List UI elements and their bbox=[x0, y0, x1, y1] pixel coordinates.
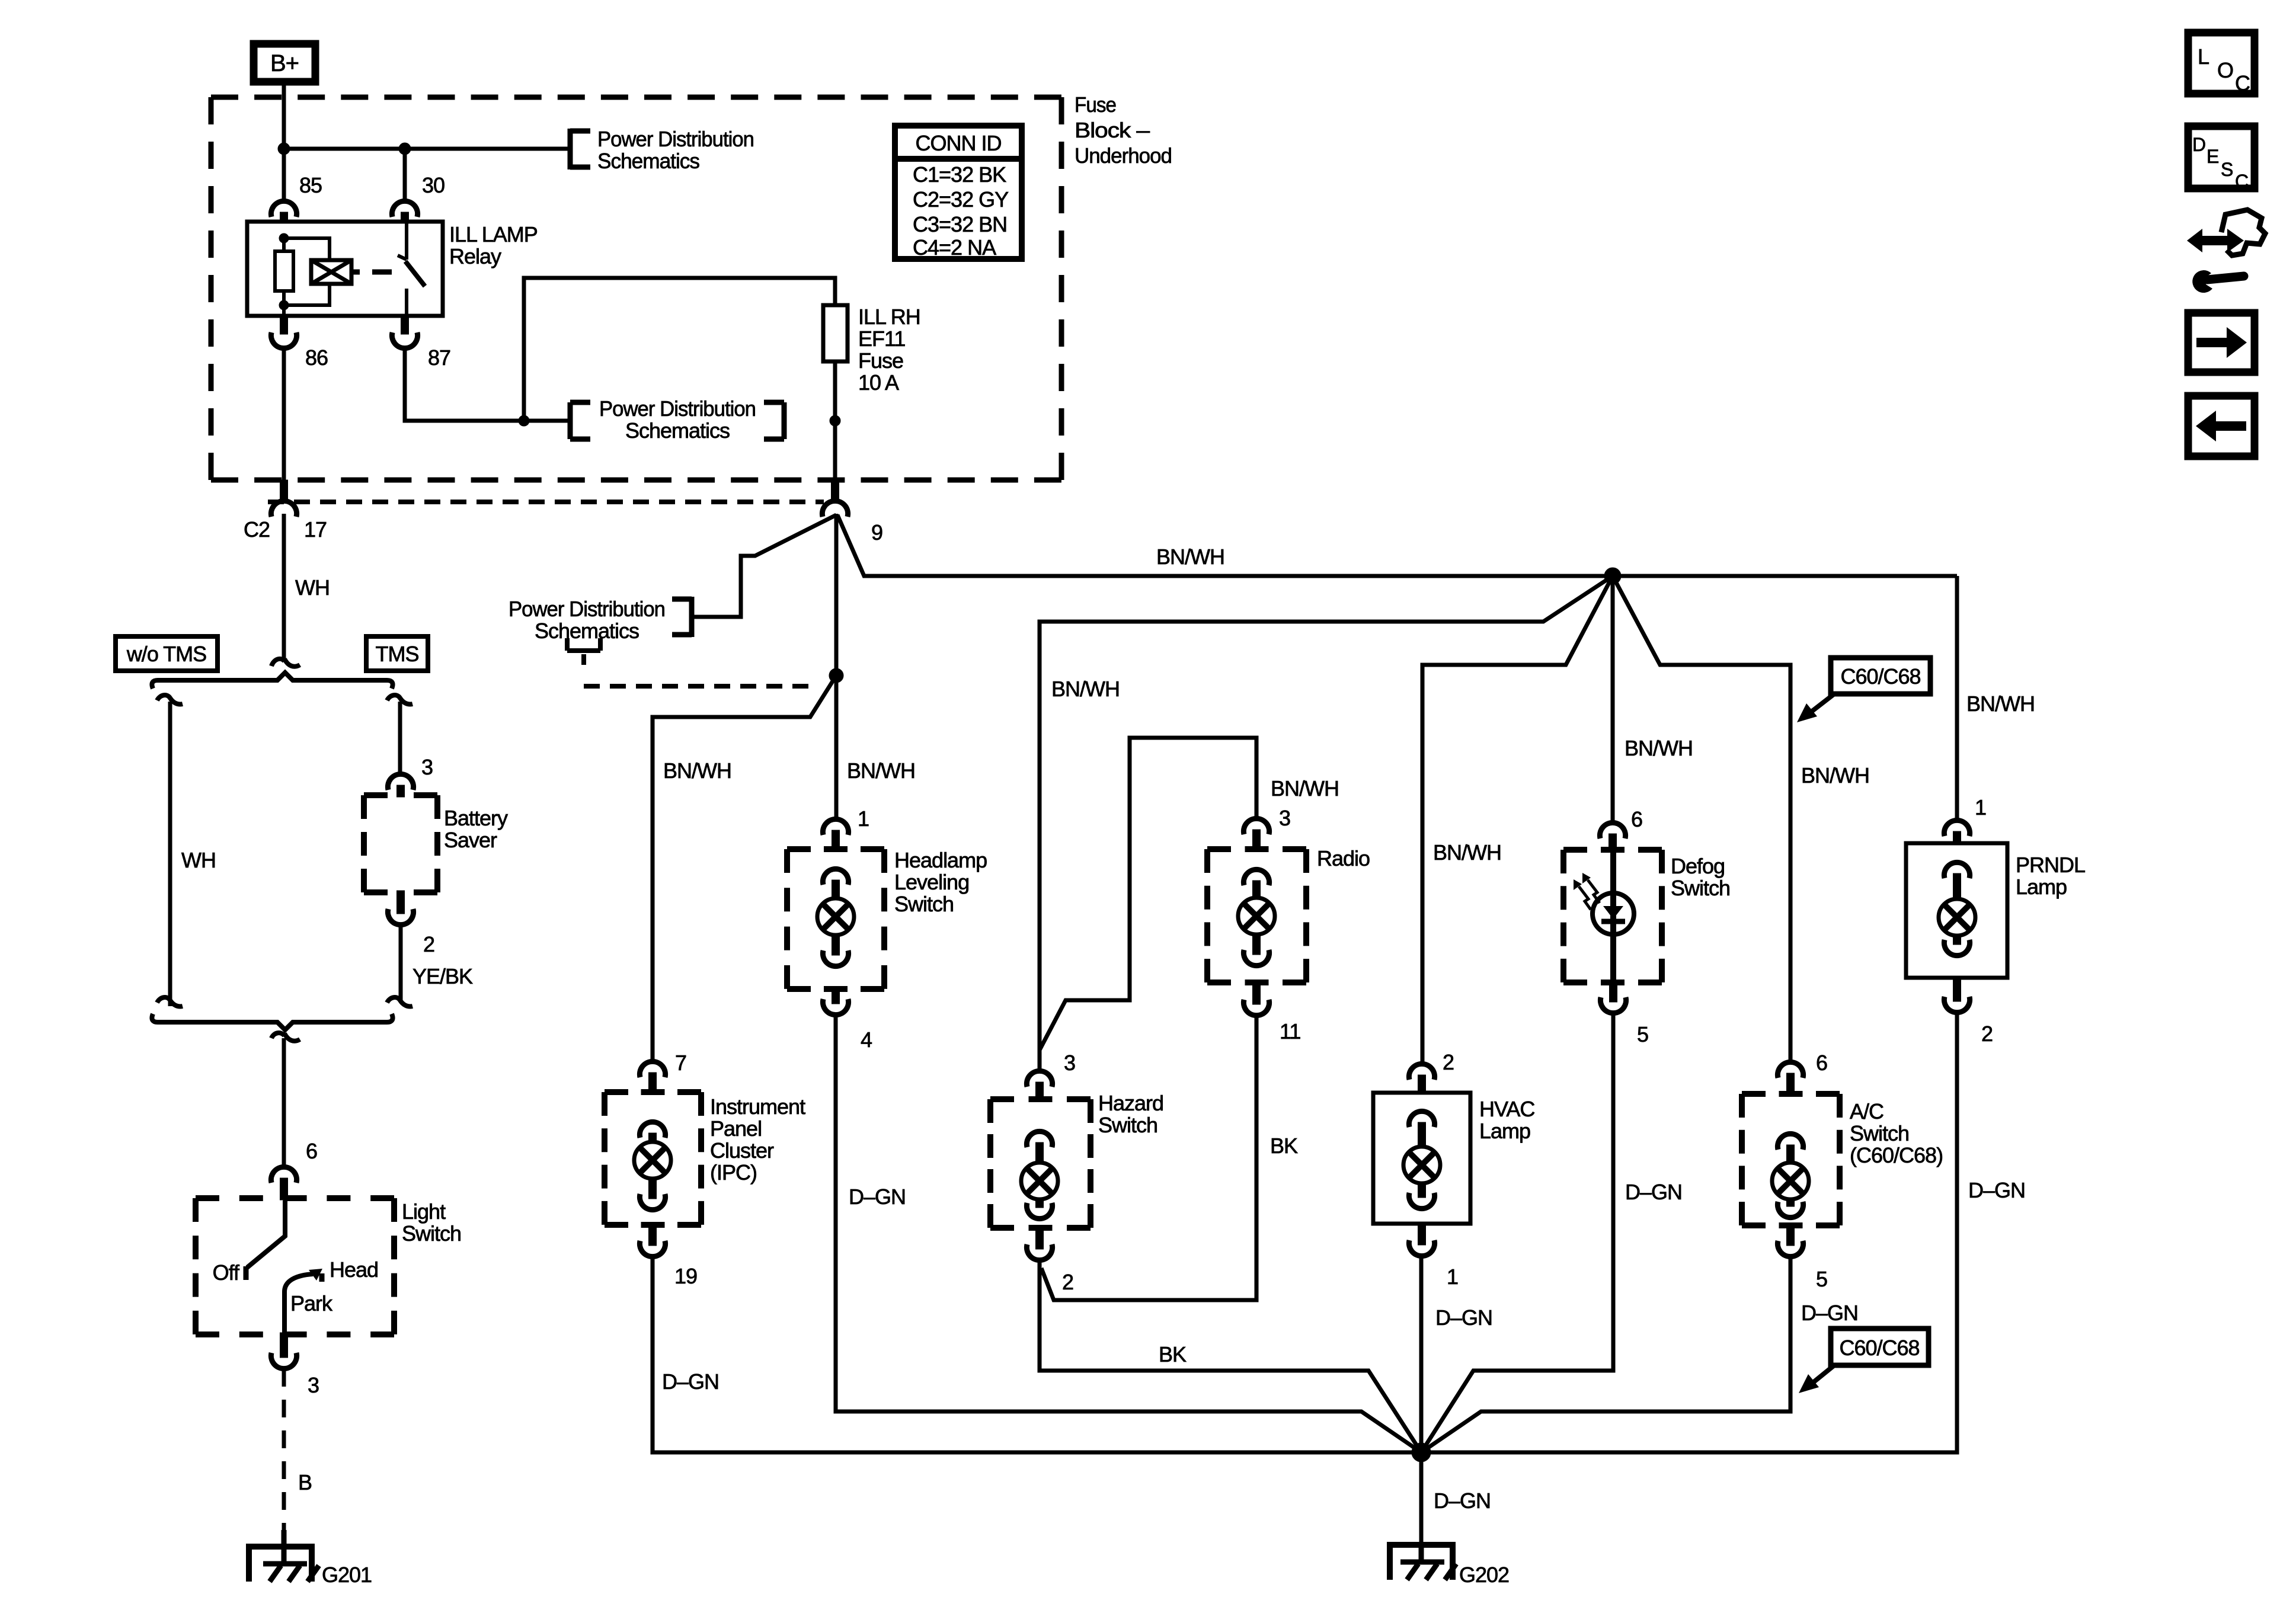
wire BN/WH to A/C switch bbox=[1613, 576, 1790, 1062]
svg-text:Schematics: Schematics bbox=[625, 418, 730, 443]
junction BN/WH main bbox=[1604, 568, 1621, 584]
svg-text:30: 30 bbox=[422, 173, 445, 197]
connector internal A/C bottom bbox=[1777, 1202, 1803, 1218]
svg-text:5: 5 bbox=[1816, 1267, 1827, 1291]
svg-text:E: E bbox=[2207, 146, 2218, 167]
connector defog pin 5 bbox=[1600, 997, 1626, 1013]
w/o TMS option tag bbox=[116, 636, 218, 671]
label A/C Switch (C60/C68) bbox=[1850, 1099, 1943, 1167]
connector PRNDL pin 2 bbox=[1944, 997, 1969, 1013]
connector IPC pin 7 bbox=[639, 1061, 665, 1077]
wire D-GN PRNDL return bbox=[1421, 1013, 1957, 1452]
svg-text:C: C bbox=[2235, 171, 2248, 192]
svg-text:2: 2 bbox=[1443, 1050, 1454, 1074]
svg-text:S: S bbox=[2221, 159, 2233, 180]
svg-text:WH: WH bbox=[181, 848, 216, 872]
svg-text:D–GN: D–GN bbox=[1435, 1305, 1492, 1330]
wire fuse to pin 9 bbox=[833, 361, 837, 481]
svg-text:TMS: TMS bbox=[376, 642, 419, 666]
connector A/C pin 6 bbox=[1777, 1062, 1803, 1078]
svg-text:Radio: Radio bbox=[1317, 846, 1370, 870]
svg-text:Fuse: Fuse bbox=[858, 348, 903, 373]
C60/C68 connector tag (upper) bbox=[1797, 658, 1930, 722]
svg-text:Leveling: Leveling bbox=[894, 870, 969, 894]
connector HVAC pin 2 bbox=[1409, 1064, 1434, 1080]
connector hazard pin 3 bbox=[1027, 1071, 1052, 1087]
connector pin 85 bbox=[271, 201, 296, 217]
PRNDL illumination lamp bbox=[1939, 899, 1975, 936]
wire D-GN to G202 bbox=[1419, 1452, 1424, 1542]
svg-text:Hazard: Hazard bbox=[1098, 1091, 1163, 1115]
svg-text:CONN ID: CONN ID bbox=[916, 131, 1002, 155]
svg-text:BK: BK bbox=[1159, 1342, 1187, 1366]
svg-text:Cluster: Cluster bbox=[710, 1138, 774, 1163]
svg-text:Power Distribution: Power Distribution bbox=[597, 127, 754, 151]
label Headlamp Leveling Switch bbox=[894, 848, 987, 916]
svg-text:87: 87 bbox=[428, 345, 450, 370]
CONN ID table bbox=[895, 126, 1022, 260]
connector internal PRNDL bottom bbox=[1944, 940, 1969, 956]
wire BN/WH to IPC bbox=[653, 676, 836, 1061]
connector internal radio bbox=[1243, 869, 1269, 885]
svg-text:Switch: Switch bbox=[1850, 1121, 1909, 1145]
svg-text:YE/BK: YE/BK bbox=[412, 964, 473, 988]
svg-text:BN/WH: BN/WH bbox=[1801, 763, 1869, 788]
connector A/C pin 5 bbox=[1777, 1241, 1803, 1257]
bracket pair power distribution schematics (middle) bbox=[570, 402, 784, 439]
svg-text:w/o TMS: w/o TMS bbox=[126, 642, 206, 666]
svg-text:2: 2 bbox=[1981, 1022, 1993, 1046]
bracket power distribution schematics (top) bbox=[570, 129, 590, 169]
junction pin 30 branch bbox=[399, 143, 411, 155]
svg-text:Lamp: Lamp bbox=[2016, 875, 2067, 899]
wire BN/WH to headlamp leveling switch bbox=[834, 676, 839, 819]
junction BN/WH headlamp/IPC bbox=[829, 668, 843, 683]
fuse ILL RH EF11 bbox=[823, 305, 848, 361]
hazard switch dashed box bbox=[990, 1099, 1091, 1228]
wire WH from C2-17 bbox=[282, 514, 286, 660]
headlamp leveling switch dashed box bbox=[787, 849, 884, 989]
C60/C68 connector tag (lower) bbox=[1799, 1329, 1929, 1393]
label Instrument Panel Cluster (IPC) bbox=[710, 1094, 805, 1185]
splice branch to TMS options bbox=[152, 659, 392, 689]
svg-text:2: 2 bbox=[423, 932, 434, 956]
label Defog Switch bbox=[1671, 854, 1730, 900]
HVAC illumination lamp bbox=[1403, 1147, 1440, 1183]
wire up-over to ILL RH fuse bbox=[524, 278, 835, 421]
svg-text:4: 4 bbox=[861, 1028, 872, 1052]
connector internal hazard bottom bbox=[1027, 1203, 1052, 1219]
connector pin 30 bbox=[392, 201, 417, 217]
svg-text:Head: Head bbox=[330, 1257, 378, 1282]
svg-text:Instrument: Instrument bbox=[710, 1094, 805, 1119]
svg-text:D–GN: D–GN bbox=[1801, 1301, 1858, 1325]
svg-text:(C60/C68): (C60/C68) bbox=[1850, 1143, 1943, 1167]
svg-text:Schematics: Schematics bbox=[535, 619, 639, 643]
svg-text:Switch: Switch bbox=[1671, 876, 1730, 900]
svg-text:C3=32 BN: C3=32 BN bbox=[913, 212, 1007, 236]
svg-text:19: 19 bbox=[674, 1264, 697, 1288]
svg-text:BN/WH: BN/WH bbox=[1271, 776, 1339, 801]
svg-text:Park: Park bbox=[290, 1291, 333, 1315]
svg-text:BN/WH: BN/WH bbox=[663, 758, 731, 783]
svg-text:Switch: Switch bbox=[1098, 1113, 1157, 1137]
power distribution schematics reference (lower) bbox=[672, 597, 692, 637]
svg-text:Block –: Block – bbox=[1075, 118, 1150, 142]
svg-text:86: 86 bbox=[305, 345, 328, 370]
svg-text:D–GN: D–GN bbox=[1434, 1489, 1491, 1513]
svg-text:Schematics: Schematics bbox=[597, 149, 699, 173]
svg-text:1: 1 bbox=[858, 806, 869, 831]
svg-text:C: C bbox=[2235, 71, 2250, 95]
connector internal IPC bbox=[639, 1122, 665, 1138]
svg-text:Battery: Battery bbox=[444, 806, 508, 830]
connector internal radio bottom bbox=[1243, 950, 1269, 966]
svg-text:1: 1 bbox=[1975, 795, 1986, 820]
wire pin 9 down bbox=[834, 514, 839, 676]
connector PRNDL pin 1 bbox=[1944, 820, 1969, 836]
label ILL RH EF11 Fuse 10 A bbox=[858, 305, 920, 395]
ground G202 bbox=[1390, 1542, 1456, 1580]
label power distribution schematics (top) bbox=[597, 127, 754, 173]
svg-text:BN/WH: BN/WH bbox=[1433, 840, 1501, 865]
svg-text:BN/WH: BN/WH bbox=[847, 758, 915, 783]
instrument panel cluster dashed box bbox=[605, 1092, 701, 1225]
svg-text:BN/WH: BN/WH bbox=[1156, 545, 1224, 569]
hazard switch illumination lamp bbox=[1021, 1163, 1058, 1199]
connector internal headlamp leveling bottom bbox=[823, 950, 848, 966]
svg-text:3: 3 bbox=[1279, 806, 1290, 830]
wire to light switch pin 6 bbox=[282, 1038, 286, 1167]
connector battery saver pin 3 bbox=[388, 774, 413, 790]
connector light switch pin 6 bbox=[271, 1167, 296, 1183]
relay internal node bottom bbox=[279, 300, 289, 310]
wire YE/BK bbox=[399, 925, 403, 1001]
svg-text:BN/WH: BN/WH bbox=[1625, 736, 1693, 760]
svg-text:D–GN: D–GN bbox=[662, 1369, 719, 1394]
TMS branch hook bbox=[387, 695, 412, 704]
svg-text:6: 6 bbox=[1631, 807, 1642, 831]
svg-text:Switch: Switch bbox=[402, 1221, 461, 1246]
svg-text:Power Distribution: Power Distribution bbox=[599, 396, 756, 421]
icon schematic reference (arrow and wrench) bbox=[2187, 210, 2265, 293]
svg-text:C60/C68: C60/C68 bbox=[1839, 1336, 1919, 1360]
label Hazard Switch bbox=[1098, 1091, 1163, 1137]
svg-text:Panel: Panel bbox=[710, 1116, 762, 1141]
connector headlamp leveling pin 4 bbox=[823, 999, 848, 1015]
B+ power symbol bbox=[254, 44, 315, 82]
svg-text:Headlamp: Headlamp bbox=[894, 848, 987, 872]
label Battery Saver bbox=[444, 806, 508, 852]
fuse block underhood dashed box bbox=[211, 97, 1061, 480]
svg-text:C2=32 GY: C2=32 GY bbox=[913, 187, 1009, 212]
svg-text:Power Distribution: Power Distribution bbox=[509, 597, 665, 621]
wire BN/WH to hazard switch bbox=[1040, 576, 1613, 1071]
ground G201 bbox=[249, 1530, 319, 1582]
svg-text:6: 6 bbox=[306, 1139, 317, 1163]
svg-text:3: 3 bbox=[308, 1373, 319, 1397]
light switch dashed box bbox=[196, 1198, 394, 1334]
PRNDL lamp box bbox=[1906, 843, 2007, 978]
svg-text:D: D bbox=[2192, 134, 2205, 155]
svg-text:6: 6 bbox=[1816, 1051, 1827, 1075]
svg-text:C60/C68: C60/C68 bbox=[1840, 664, 1920, 689]
connector light switch pin 3 bbox=[271, 1353, 296, 1369]
connector pin 87 bbox=[392, 332, 417, 348]
connector pin 9 bbox=[822, 501, 848, 517]
wire BN/WH to HVAC lamp bbox=[1422, 576, 1613, 1064]
wire pin 86 to C2-17 bbox=[282, 348, 286, 481]
label HVAC Lamp bbox=[1479, 1097, 1534, 1143]
wire BK radio return bbox=[1041, 1016, 1256, 1300]
icon arrow previous bbox=[2188, 396, 2255, 456]
svg-text:Relay: Relay bbox=[449, 244, 501, 268]
svg-text:EF11: EF11 bbox=[858, 327, 905, 351]
icon arrow next bbox=[2188, 313, 2255, 372]
wire B+ bus to power distribution bbox=[284, 147, 569, 151]
TMS option tag bbox=[366, 636, 428, 671]
label Fuse Block - Underhood bbox=[1075, 92, 1172, 168]
svg-text:7: 7 bbox=[675, 1051, 686, 1075]
connector radio pin 3 bbox=[1243, 818, 1269, 834]
defog LED indicator bbox=[1574, 850, 1634, 982]
svg-text:Defog: Defog bbox=[1671, 854, 1725, 878]
wire D-GN HVAC return bbox=[1419, 1256, 1424, 1452]
svg-text:A/C: A/C bbox=[1850, 1099, 1884, 1124]
svg-text:WH: WH bbox=[295, 575, 330, 600]
pin 17 stub bbox=[280, 480, 288, 502]
A/C illumination lamp bbox=[1772, 1163, 1809, 1199]
label Light Switch bbox=[402, 1199, 461, 1246]
connector headlamp leveling pin 1 bbox=[823, 819, 848, 835]
wire pin 9 to power distribution bbox=[691, 515, 836, 617]
svg-text:O: O bbox=[2217, 58, 2233, 82]
connector internal PRNDL bbox=[1944, 862, 1969, 878]
connector internal hazard bbox=[1027, 1131, 1052, 1147]
wire D-GN headlamp leveling return bbox=[836, 1015, 1421, 1452]
svg-text:G201: G201 bbox=[322, 1563, 372, 1587]
light switch contacts bbox=[246, 1201, 322, 1333]
wire BN/WH to PRNDL lamp bbox=[1955, 576, 1959, 820]
wire BK hazard return bbox=[1040, 1260, 1421, 1452]
relay coil bbox=[284, 238, 392, 305]
junction B+ bus left bbox=[278, 143, 290, 155]
svg-text:85: 85 bbox=[299, 173, 322, 197]
dashed continuation mark bbox=[567, 638, 813, 686]
wire to relay pin 30 bbox=[403, 149, 407, 201]
wire BN/WH to radio bbox=[1040, 738, 1256, 1050]
IPC illumination lamp bbox=[634, 1142, 671, 1179]
svg-text:B: B bbox=[298, 1470, 312, 1494]
w/o TMS branch hook bbox=[157, 695, 183, 704]
svg-text:Switch: Switch bbox=[894, 892, 954, 916]
label ILL LAMP Relay bbox=[449, 222, 538, 268]
svg-text:1: 1 bbox=[1447, 1265, 1458, 1289]
junction ground bus G202 bbox=[1412, 1443, 1431, 1462]
svg-text:C2: C2 bbox=[244, 517, 270, 542]
wire D-GN A/C return bbox=[1421, 1257, 1790, 1452]
wire BN/WH main bus bbox=[837, 515, 1957, 576]
svg-text:17: 17 bbox=[304, 517, 327, 542]
svg-text:PRNDL: PRNDL bbox=[2016, 853, 2085, 877]
wire D-GN IPC return bbox=[653, 1257, 1421, 1452]
radio illumination lamp bbox=[1238, 898, 1275, 934]
wire B to ground bbox=[282, 1369, 286, 1530]
HVAC lamp box bbox=[1373, 1093, 1470, 1224]
connector HVAC pin 1 bbox=[1409, 1240, 1434, 1256]
svg-text:ILL RH: ILL RH bbox=[858, 305, 920, 329]
wire BN/WH to defog switch bbox=[1611, 576, 1615, 822]
label power distribution schematics (lower) bbox=[509, 597, 665, 643]
pin 86 stub bbox=[280, 314, 288, 334]
svg-text:C1=32 BK: C1=32 BK bbox=[913, 162, 1006, 187]
relay switch contacts bbox=[398, 222, 425, 316]
svg-text:Underhood: Underhood bbox=[1075, 143, 1172, 168]
svg-text:(IPC): (IPC) bbox=[710, 1160, 757, 1185]
defog switch dashed box bbox=[1563, 850, 1662, 982]
svg-text:5: 5 bbox=[1637, 1022, 1648, 1046]
pin 9 stub bbox=[832, 480, 839, 502]
svg-text:HVAC: HVAC bbox=[1479, 1097, 1534, 1121]
connector internal headlamp leveling bbox=[823, 869, 848, 885]
relay resistor bbox=[275, 238, 293, 316]
connector pin 86 bbox=[271, 332, 296, 348]
svg-text:BN/WH: BN/WH bbox=[1966, 692, 2035, 716]
svg-text:2: 2 bbox=[1062, 1270, 1073, 1294]
connector internal IPC bottom bbox=[639, 1194, 665, 1210]
merge bar above light switch bbox=[152, 997, 412, 1041]
svg-text:Fuse: Fuse bbox=[1075, 92, 1116, 117]
svg-text:9: 9 bbox=[871, 520, 882, 545]
svg-text:BK: BK bbox=[1270, 1134, 1298, 1158]
svg-text:G202: G202 bbox=[1459, 1563, 1509, 1587]
pin 87 stub bbox=[401, 314, 409, 334]
connector C2 pin 17 bbox=[271, 501, 296, 517]
battery saver dashed box bbox=[364, 795, 437, 892]
connector internal A/C bbox=[1777, 1134, 1803, 1150]
relay U1 ILL LAMP Relay box bbox=[247, 222, 443, 316]
svg-text:D–GN: D–GN bbox=[849, 1185, 906, 1209]
svg-text:L: L bbox=[2198, 44, 2209, 69]
wire to relay pin 85 bbox=[282, 149, 286, 201]
connector IPC pin 19 bbox=[639, 1241, 665, 1257]
radio dashed box bbox=[1207, 849, 1306, 982]
connector internal HVAC bottom bbox=[1409, 1193, 1434, 1209]
wire D-GN defog return bbox=[1421, 1013, 1613, 1452]
connector radio pin 11 bbox=[1243, 1000, 1269, 1016]
svg-text:Light: Light bbox=[402, 1199, 446, 1224]
svg-text:Lamp: Lamp bbox=[1479, 1119, 1530, 1143]
svg-text:Saver: Saver bbox=[444, 828, 497, 852]
svg-text:10 A: 10 A bbox=[858, 370, 899, 395]
connector battery saver pin 2 bbox=[388, 909, 413, 925]
wire WH w/o TMS branch bbox=[168, 702, 172, 1006]
A/C switch dashed box bbox=[1742, 1094, 1840, 1225]
label PRNDL Lamp bbox=[2016, 853, 2085, 899]
connector internal HVAC bbox=[1409, 1111, 1434, 1127]
icon LOC bbox=[2188, 33, 2255, 95]
svg-text:B+: B+ bbox=[270, 50, 299, 76]
svg-text:3: 3 bbox=[421, 755, 433, 779]
svg-text:BN/WH: BN/WH bbox=[1051, 677, 1120, 701]
connector boundary dashed line bbox=[268, 500, 824, 504]
svg-text:D–GN: D–GN bbox=[1625, 1180, 1682, 1204]
label power distribution schematics (middle) bbox=[599, 396, 756, 443]
wire pin 87 to power distribution bbox=[405, 348, 569, 421]
svg-text:D–GN: D–GN bbox=[1968, 1178, 2025, 1202]
svg-text:C4=2 NA: C4=2 NA bbox=[913, 235, 996, 260]
svg-text:3: 3 bbox=[1064, 1051, 1075, 1075]
svg-text:Off: Off bbox=[213, 1260, 240, 1285]
junction fuse output bbox=[830, 415, 840, 426]
connector defog pin 6 bbox=[1600, 822, 1625, 838]
relay internal node top bbox=[279, 233, 289, 243]
headlamp leveling illumination lamp bbox=[817, 898, 854, 935]
icon DESC bbox=[2188, 126, 2255, 192]
wire B+ feed down bbox=[282, 85, 286, 151]
connector hazard pin 2 bbox=[1027, 1244, 1052, 1260]
wire TMS branch bbox=[398, 702, 402, 774]
svg-text:ILL LAMP: ILL LAMP bbox=[449, 222, 538, 247]
svg-text:11: 11 bbox=[1280, 1019, 1300, 1044]
junction 87 loop bbox=[519, 415, 529, 426]
